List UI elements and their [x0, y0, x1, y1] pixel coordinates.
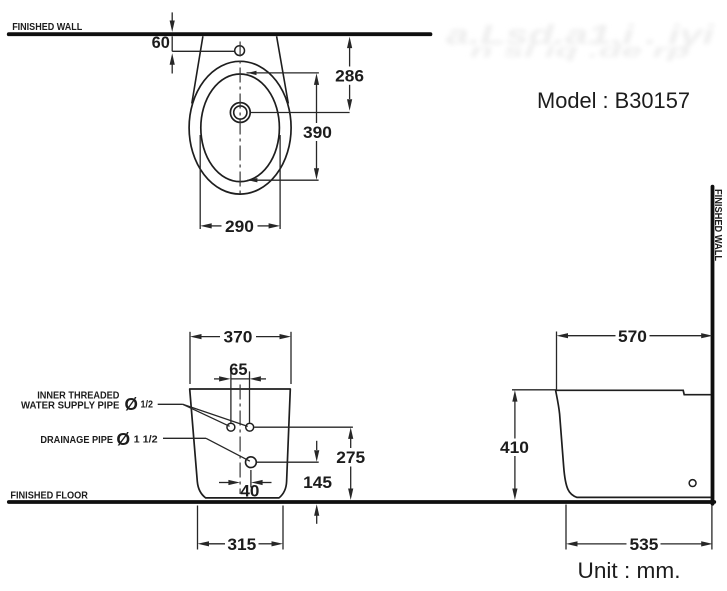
370 left extension line: [189, 332, 191, 384]
drain hole outer circle (top view): [230, 103, 250, 123]
65 right extension line: [249, 371, 251, 422]
290 left extension line: [199, 135, 201, 229]
side view outlet circle: [689, 480, 696, 487]
drainage pipe leader line: [163, 438, 250, 461]
centerline (top view): [239, 42, 241, 198]
left supply hole (front view): [227, 423, 235, 431]
wall line (side view, right): [711, 187, 715, 504]
315 left extension line: [197, 506, 199, 550]
svg-text:60: 60: [152, 33, 170, 52]
svg-text:145: 145: [303, 473, 332, 492]
svg-text:Ø: Ø: [125, 394, 138, 414]
svg-text:286: 286: [335, 67, 364, 86]
drain hole inner circle (top view): [234, 106, 247, 119]
svg-text:Unit : mm.: Unit : mm.: [578, 558, 681, 583]
floor line: [9, 500, 715, 504]
svg-text:FINISHED WALL: FINISHED WALL: [12, 22, 82, 33]
svg-text:WATER SUPPLY PIPE: WATER SUPPLY PIPE: [21, 401, 120, 412]
290 right extension line: [279, 135, 281, 229]
supply pipes leader line: [158, 404, 248, 426]
svg-text:290: 290: [225, 217, 254, 236]
145 top extension line: [257, 461, 319, 463]
40 drain extension line: [250, 470, 252, 488]
svg-text:Model : B30157: Model : B30157: [537, 88, 690, 113]
svg-text:535: 535: [630, 535, 659, 554]
dimension 390 (bowl length): [303, 73, 332, 179]
570 left extension line: [556, 332, 558, 391]
svg-text:Ø: Ø: [116, 429, 130, 449]
535 left extension line: [565, 505, 567, 550]
svg-text:FINISHED WALL: FINISHED WALL: [712, 189, 723, 261]
535 wall extension line: [711, 506, 713, 550]
dimension 535 (base depth): [566, 535, 713, 554]
watermark: [446, 19, 716, 61]
svg-text:40: 40: [240, 482, 259, 501]
dimension 286 (wall to drain center): [335, 37, 364, 111]
svg-text:1/2: 1/2: [141, 400, 154, 411]
bidet top view right side line: [277, 36, 289, 103]
svg-text:410: 410: [500, 438, 529, 457]
svg-text:570: 570: [618, 327, 647, 346]
svg-text:1 1/2: 1 1/2: [134, 435, 158, 446]
dimension 570 (depth to wall): [557, 327, 713, 346]
275 top extension line: [254, 426, 353, 428]
right supply hole (front view): [246, 423, 254, 431]
dimension 65 (supply holes spacing): [214, 360, 266, 381]
370 right extension line: [290, 332, 292, 384]
bidet top view outer rim ellipse: [189, 61, 291, 194]
dimension 275 (supply height): [336, 427, 365, 500]
dimension 370 (body width): [190, 328, 291, 347]
svg-text:FINISHED FLOOR: FINISHED FLOOR: [10, 490, 88, 501]
wall line (top view): [9, 32, 431, 36]
svg-text:n sl iq .de rp: n sl iq .de rp: [470, 41, 690, 61]
315 right extension line: [282, 506, 284, 550]
390 top extension line: [247, 71, 319, 75]
svg-text:DRAINAGE PIPE: DRAINAGE PIPE: [40, 435, 113, 446]
svg-text:275: 275: [336, 448, 365, 467]
dimension 40 (drain offset): [219, 480, 272, 501]
bidet front view outline: [190, 389, 291, 498]
dimension 145 (drain height): [303, 441, 332, 524]
centerline (front view): [239, 385, 241, 495]
bidet top view left side line: [192, 36, 203, 103]
bidet side view outline: [556, 390, 711, 497]
dimension 410 (body height): [500, 390, 529, 500]
svg-text:390: 390: [303, 123, 332, 142]
dimension 315 (base width): [198, 535, 284, 554]
dimension 60 (supply hole to wall): [152, 12, 235, 73]
65 left extension line: [230, 371, 232, 422]
dimension 290 (bowl width): [200, 217, 280, 236]
390 bottom extension line: [247, 178, 318, 182]
svg-text:370: 370: [224, 328, 253, 347]
supply hole (top view): [235, 46, 245, 56]
drain center extension line: [251, 112, 350, 114]
svg-text:315: 315: [227, 535, 256, 554]
drain hole (front view): [246, 457, 257, 468]
svg-text:65: 65: [229, 360, 247, 379]
410 top extension line: [512, 389, 556, 391]
bidet top view inner bowl ellipse: [201, 74, 280, 182]
